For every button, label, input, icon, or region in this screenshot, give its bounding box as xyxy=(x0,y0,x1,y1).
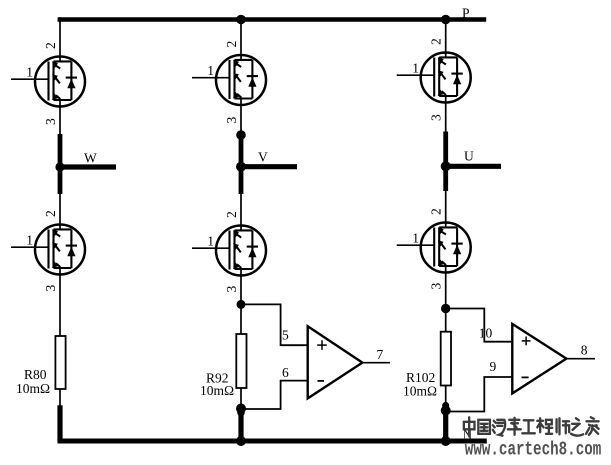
svg-text:3: 3 xyxy=(429,114,444,121)
svg-text:7: 7 xyxy=(377,347,384,362)
svg-text:2: 2 xyxy=(224,211,239,218)
svg-text:R80: R80 xyxy=(24,367,47,382)
svg-text:3: 3 xyxy=(43,118,58,125)
svg-text:1: 1 xyxy=(412,61,419,76)
svg-text:1: 1 xyxy=(26,233,33,248)
svg-text:1: 1 xyxy=(207,234,214,249)
svg-text:8: 8 xyxy=(581,343,588,358)
svg-text:U: U xyxy=(464,149,474,164)
svg-text:5: 5 xyxy=(282,328,289,343)
svg-text:9: 9 xyxy=(490,359,497,374)
svg-text:V: V xyxy=(258,150,268,165)
svg-text:www.cartech8.com: www.cartech8.com xyxy=(465,439,602,461)
svg-text:10: 10 xyxy=(479,326,493,341)
svg-text:3: 3 xyxy=(224,286,239,293)
svg-text:2: 2 xyxy=(43,210,58,217)
svg-text:1: 1 xyxy=(207,63,214,78)
svg-text:6: 6 xyxy=(282,365,289,380)
svg-text:3: 3 xyxy=(429,283,444,290)
svg-text:10mΩ: 10mΩ xyxy=(16,381,50,396)
svg-text:1: 1 xyxy=(412,231,419,246)
svg-text:10mΩ: 10mΩ xyxy=(403,384,437,399)
svg-text:3: 3 xyxy=(43,285,58,292)
svg-text:W: W xyxy=(84,151,97,166)
svg-text:10mΩ: 10mΩ xyxy=(200,383,234,398)
svg-text:3: 3 xyxy=(224,117,239,124)
svg-text:2: 2 xyxy=(43,42,58,49)
svg-text:1: 1 xyxy=(26,65,33,80)
svg-text:2: 2 xyxy=(224,41,239,48)
svg-text:P: P xyxy=(462,6,470,21)
svg-text:2: 2 xyxy=(429,208,444,215)
svg-text:2: 2 xyxy=(429,38,444,45)
